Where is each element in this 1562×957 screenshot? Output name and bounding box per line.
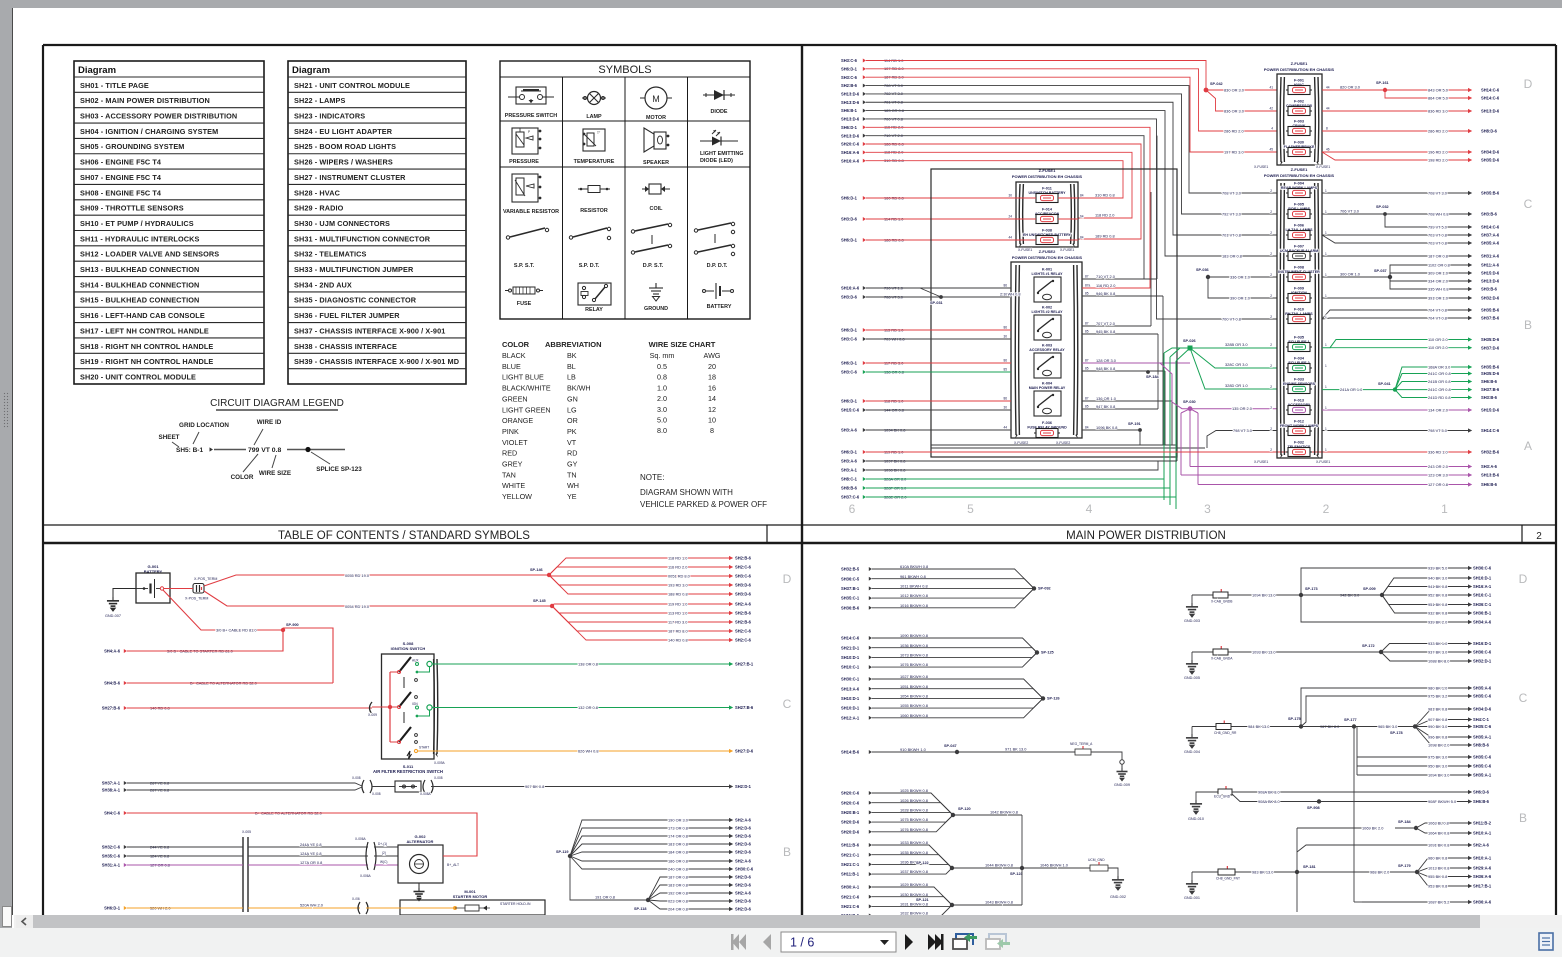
svg-text:SP-145: SP-145 bbox=[533, 599, 546, 603]
svg-text:933 BK 1.0: 933 BK 1.0 bbox=[1428, 641, 1448, 646]
svg-text:SH11:B-1: SH11:B-1 bbox=[841, 872, 860, 877]
svg-text:SH14:C-6: SH14:C-6 bbox=[1481, 96, 1500, 101]
svg-text:939 BK 5.0: 939 BK 5.0 bbox=[1428, 565, 1448, 570]
svg-text:128 OR 3.0: 128 OR 3.0 bbox=[1096, 358, 1117, 363]
svg-text:8: 8 bbox=[710, 426, 714, 435]
svg-text:SH37:C-6: SH37:C-6 bbox=[841, 495, 860, 500]
svg-text:SH2:D-6: SH2:D-6 bbox=[735, 834, 752, 839]
svg-text:SH37:B-6: SH37:B-6 bbox=[1481, 387, 1500, 392]
svg-text:SH20:B-1: SH20:B-1 bbox=[841, 810, 860, 815]
svg-text:SH6:D-6: SH6:D-6 bbox=[1473, 790, 1490, 795]
svg-text:2: 2 bbox=[1270, 252, 1272, 256]
svg-text:SH32:D-6: SH32:D-6 bbox=[1481, 296, 1500, 301]
svg-text:1030 BKWH 0.8: 1030 BKWH 0.8 bbox=[900, 892, 928, 897]
svg-text:SP-161: SP-161 bbox=[1376, 81, 1389, 85]
svg-text:84: 84 bbox=[1085, 426, 1089, 430]
svg-text:86: 86 bbox=[1003, 284, 1007, 288]
svg-text:IGNITION SWITCH: IGNITION SWITCH bbox=[391, 646, 426, 651]
svg-text:BLACK: BLACK bbox=[502, 351, 526, 360]
svg-text:118 RD 2.0: 118 RD 2.0 bbox=[1095, 213, 1115, 218]
svg-text:701 VT 0.8: 701 VT 0.8 bbox=[1222, 232, 1241, 237]
svg-text:MAIN POWER RELAY: MAIN POWER RELAY bbox=[1029, 386, 1066, 390]
svg-text:X-FUSE1: X-FUSE1 bbox=[1254, 460, 1268, 464]
svg-text:24: 24 bbox=[1008, 215, 1012, 219]
svg-text:SH12 - LOADER VALVE AND SENSOR: SH12 - LOADER VALVE AND SENSORS bbox=[80, 250, 219, 259]
svg-text:1102 OR 0.8: 1102 OR 0.8 bbox=[1428, 262, 1450, 267]
svg-text:SH3:C-6: SH3:C-6 bbox=[735, 574, 752, 579]
svg-text:B: B bbox=[1519, 811, 1527, 825]
svg-text:SH27:D-6: SH27:D-6 bbox=[735, 749, 754, 754]
svg-text:1: 1 bbox=[1325, 406, 1327, 410]
svg-text:798 VT 5.0: 798 VT 5.0 bbox=[1428, 428, 1448, 433]
svg-text:SH31 - MULTIFUNCTION CONNECTOR: SH31 - MULTIFUNCTION CONNECTOR bbox=[294, 234, 431, 243]
svg-text:SP-031: SP-031 bbox=[930, 301, 943, 305]
svg-text:ABBREVIATION: ABBREVIATION bbox=[545, 340, 602, 349]
svg-text:SH15 - BULKHEAD CONNECTION: SH15 - BULKHEAD CONNECTION bbox=[80, 296, 199, 305]
svg-text:SH11 - HYDRAULIC INTERLOCKS: SH11 - HYDRAULIC INTERLOCKS bbox=[80, 234, 199, 243]
svg-text:87: 87 bbox=[1085, 322, 1089, 326]
svg-text:116 RD 2.0: 116 RD 2.0 bbox=[668, 564, 688, 569]
svg-text:192 OR 0.8: 192 OR 0.8 bbox=[668, 890, 688, 895]
svg-text:GREEN: GREEN bbox=[502, 394, 528, 403]
svg-text:SH10:D-1: SH10:D-1 bbox=[841, 655, 860, 660]
svg-text:1035 BKWH 0.8: 1035 BKWH 0.8 bbox=[900, 850, 928, 855]
svg-text:GND-001: GND-001 bbox=[1184, 896, 1200, 900]
svg-text:SH16:A-6: SH16:A-6 bbox=[841, 286, 860, 291]
svg-text:6: 6 bbox=[849, 502, 856, 516]
svg-text:SH21:C-1: SH21:C-1 bbox=[841, 852, 860, 857]
svg-text:D: D bbox=[1524, 77, 1533, 91]
svg-text:110 OR 2.0: 110 OR 2.0 bbox=[1428, 337, 1448, 342]
svg-text:SH3:B-6: SH3:B-6 bbox=[1481, 212, 1498, 217]
svg-text:B: B bbox=[1524, 318, 1532, 332]
svg-text:SH32:D-1: SH32:D-1 bbox=[1473, 659, 1492, 664]
svg-text:SH20:C-6: SH20:C-6 bbox=[841, 800, 860, 805]
svg-text:87: 87 bbox=[1085, 397, 1089, 401]
svg-text:SH2:D-6: SH2:D-6 bbox=[735, 907, 752, 912]
svg-text:WH: WH bbox=[567, 481, 579, 490]
svg-text:SH35:C-6: SH35:C-6 bbox=[1473, 755, 1492, 760]
svg-text:1033 BKWH 0.8: 1033 BKWH 0.8 bbox=[900, 840, 928, 845]
svg-text:SH6:B-6: SH6:B-6 bbox=[1473, 799, 1490, 804]
svg-text:836 RD 3.0: 836 RD 3.0 bbox=[1428, 108, 1449, 113]
svg-text:947 BK 0.8: 947 BK 0.8 bbox=[1096, 404, 1115, 409]
svg-text:243 OR 2.0: 243 OR 2.0 bbox=[1428, 464, 1449, 469]
svg-text:SP-041: SP-041 bbox=[1378, 382, 1391, 386]
svg-text:955 BK 0.8: 955 BK 0.8 bbox=[1428, 874, 1447, 879]
svg-text:SH6:D-1: SH6:D-1 bbox=[841, 450, 858, 455]
svg-text:1088 BK 8.0: 1088 BK 8.0 bbox=[1428, 658, 1450, 663]
svg-text:TABLE OF CONTENTS / STANDARD S: TABLE OF CONTENTS / STANDARD SYMBOLS bbox=[278, 530, 530, 542]
svg-text:C: C bbox=[1524, 197, 1533, 211]
svg-text:SH2:D-6: SH2:D-6 bbox=[735, 883, 752, 888]
svg-text:SP-037: SP-037 bbox=[1374, 269, 1387, 273]
svg-text:X-005: X-005 bbox=[242, 830, 251, 834]
svg-text:1064 BK 0.8: 1064 BK 0.8 bbox=[1428, 830, 1449, 835]
svg-text:SH14:B-6: SH14:B-6 bbox=[841, 750, 860, 755]
svg-text:134 OR 2.0: 134 OR 2.0 bbox=[1428, 407, 1449, 412]
svg-text:RED: RED bbox=[502, 449, 517, 458]
svg-text:SH35:A-6: SH35:A-6 bbox=[1481, 241, 1500, 246]
svg-text:1: 1 bbox=[1325, 294, 1327, 298]
svg-text:984 BK 13.0: 984 BK 13.0 bbox=[1248, 724, 1270, 729]
svg-text:SP-125: SP-125 bbox=[1041, 651, 1054, 655]
svg-text:87: 87 bbox=[1085, 275, 1089, 279]
svg-text:975 BK 3.0: 975 BK 3.0 bbox=[1428, 754, 1448, 759]
svg-text:Diagram: Diagram bbox=[292, 65, 330, 76]
svg-text:BLACK/WHITE: BLACK/WHITE bbox=[502, 384, 551, 393]
svg-text:ORANGE: ORANGE bbox=[502, 416, 533, 425]
svg-text:1: 1 bbox=[1325, 343, 1327, 347]
svg-text:X-/06: X-/06 bbox=[352, 897, 360, 901]
svg-text:44: 44 bbox=[1003, 426, 1007, 430]
svg-text:703 VT 0.8: 703 VT 0.8 bbox=[1428, 240, 1447, 245]
svg-text:VEHICLE PARKED & POWER OFF: VEHICLE PARKED & POWER OFF bbox=[640, 500, 767, 509]
svg-text:SH35:B-6: SH35:B-6 bbox=[1481, 365, 1500, 370]
svg-text:908F BKWH 5.0: 908F BKWH 5.0 bbox=[1428, 799, 1457, 804]
svg-text:1069 BK 2.0: 1069 BK 2.0 bbox=[1362, 825, 1384, 830]
svg-text:708 VT 3.0: 708 VT 3.0 bbox=[1428, 190, 1448, 195]
svg-text:SH36:B-1: SH36:B-1 bbox=[1473, 611, 1492, 616]
svg-text:1: 1 bbox=[1441, 502, 1448, 516]
svg-text:971 BK 13.0: 971 BK 13.0 bbox=[1005, 747, 1027, 752]
svg-text:NOTE:: NOTE: bbox=[640, 473, 664, 482]
svg-text:X-FUSE1: X-FUSE1 bbox=[1060, 248, 1074, 252]
svg-text:5.0: 5.0 bbox=[657, 416, 667, 425]
svg-text:SH21:C-6: SH21:C-6 bbox=[841, 894, 860, 899]
svg-text:SH33 - MULTIFUNCTION JUMPER: SH33 - MULTIFUNCTION JUMPER bbox=[294, 265, 414, 274]
svg-text:Z-FUSE2: Z-FUSE2 bbox=[1039, 249, 1056, 254]
svg-text:2: 2 bbox=[1270, 231, 1272, 235]
svg-text:SH16:A-6: SH16:A-6 bbox=[841, 158, 860, 163]
svg-text:SH4:C-1: SH4:C-1 bbox=[1473, 717, 1490, 722]
svg-text:BLUE: BLUE bbox=[502, 362, 521, 371]
svg-text:241A OR 1.0: 241A OR 1.0 bbox=[1340, 387, 1363, 392]
svg-text:LIGHT GREEN: LIGHT GREEN bbox=[502, 405, 551, 414]
svg-text:SH4:C-6: SH4:C-6 bbox=[104, 811, 121, 816]
svg-text:941 BK 0.8: 941 BK 0.8 bbox=[1428, 584, 1447, 589]
svg-text:SH34:A-6: SH34:A-6 bbox=[1473, 620, 1492, 625]
svg-text:BATTERY: BATTERY bbox=[707, 304, 732, 310]
svg-text:Z-FUSE1: Z-FUSE1 bbox=[1291, 61, 1308, 66]
svg-text:SH8:B-6: SH8:B-6 bbox=[1473, 743, 1490, 748]
svg-text:1087 BK 5.2: 1087 BK 5.2 bbox=[1428, 899, 1449, 904]
svg-text:SH11:B-6: SH11:B-6 bbox=[841, 843, 860, 848]
svg-text:SH22 - LAMPS: SH22 - LAMPS bbox=[294, 96, 346, 105]
svg-text:SH09 - THROTTLE SENSORS: SH09 - THROTTLE SENSORS bbox=[80, 204, 184, 213]
svg-text:1076 BKWH 0.8: 1076 BKWH 0.8 bbox=[900, 662, 928, 667]
svg-text:POWER DISTRIBUTION EH CHASSIS: POWER DISTRIBUTION EH CHASSIS bbox=[1012, 255, 1083, 260]
svg-text:SH6:B-1: SH6:B-1 bbox=[841, 108, 858, 113]
svg-text:SH14:C-6: SH14:C-6 bbox=[1481, 225, 1500, 230]
svg-text:SH08 - ENGINE F5C T4: SH08 - ENGINE F5C T4 bbox=[80, 188, 162, 197]
svg-text:193 RD 3.0: 193 RD 3.0 bbox=[668, 582, 689, 587]
svg-text:STARTER MOTOR: STARTER MOTOR bbox=[453, 894, 488, 899]
svg-text:SH29:A-6: SH29:A-6 bbox=[1473, 866, 1492, 871]
svg-text:1028 BKWH 0.8: 1028 BKWH 0.8 bbox=[900, 808, 928, 813]
svg-text:SH32 - TELEMATICS: SH32 - TELEMATICS bbox=[294, 250, 367, 259]
svg-text:138 OR 0.8: 138 OR 0.8 bbox=[578, 661, 598, 666]
svg-text:SP-178: SP-178 bbox=[1390, 731, 1403, 735]
svg-text:1042 BKWH 0.8: 1042 BKWH 0.8 bbox=[990, 810, 1018, 815]
svg-text:SH4:A-6: SH4:A-6 bbox=[104, 649, 121, 654]
svg-text:2: 2 bbox=[1270, 343, 1272, 347]
svg-text:SP-030: SP-030 bbox=[1183, 400, 1196, 404]
svg-text:BK: BK bbox=[567, 351, 577, 360]
svg-text:SH20:D-6: SH20:D-6 bbox=[841, 829, 860, 834]
svg-text:BK/WH: BK/WH bbox=[567, 384, 591, 393]
svg-text:16: 16 bbox=[708, 383, 716, 392]
svg-text:ECU_GND: ECU_GND bbox=[1214, 795, 1231, 799]
svg-text:SH20:D-6: SH20:D-6 bbox=[841, 820, 860, 825]
svg-text:SH31:A-1: SH31:A-1 bbox=[102, 863, 121, 868]
svg-text:SH37:B-1: SH37:B-1 bbox=[841, 586, 860, 591]
svg-text:SH04 - IGNITION / CHARGING SY: SH04 - IGNITION / CHARGING SYSTEM bbox=[80, 127, 218, 136]
svg-text:300 OR 1.0: 300 OR 1.0 bbox=[1340, 272, 1361, 277]
svg-text:SH2:A-6: SH2:A-6 bbox=[735, 818, 752, 823]
svg-text:SH32:B-5: SH32:B-5 bbox=[841, 567, 860, 572]
svg-text:181 OR 0.8: 181 OR 0.8 bbox=[668, 841, 688, 846]
svg-text:1: 1 bbox=[1325, 364, 1327, 368]
svg-text:183 OR 0.8: 183 OR 0.8 bbox=[1222, 253, 1242, 258]
svg-text:1063 BL 0.8: 1063 BL 0.8 bbox=[1428, 820, 1449, 825]
svg-text:M: M bbox=[652, 94, 660, 104]
svg-text:SH2:B-6: SH2:B-6 bbox=[735, 620, 752, 625]
svg-text:113 RD 1.0: 113 RD 1.0 bbox=[668, 610, 688, 615]
svg-text:2: 2 bbox=[1270, 210, 1272, 214]
svg-text:SH6:D-1: SH6:D-1 bbox=[841, 125, 858, 130]
svg-text:SH3:D-6: SH3:D-6 bbox=[735, 583, 752, 588]
svg-text:X-FUSE2: X-FUSE2 bbox=[1056, 441, 1070, 445]
svg-text:SH2:A-6: SH2:A-6 bbox=[1473, 843, 1490, 848]
svg-text:SH6:D-1: SH6:D-1 bbox=[841, 238, 858, 243]
svg-text:241D RD 0.8: 241D RD 0.8 bbox=[1428, 395, 1451, 400]
svg-text:SH29 - RADIO: SH29 - RADIO bbox=[294, 204, 344, 213]
svg-text:335 WH 0.8: 335 WH 0.8 bbox=[1428, 286, 1449, 291]
svg-text:SH2:D-6: SH2:D-6 bbox=[735, 850, 752, 855]
svg-text:1012 BKWH 0.8: 1012 BKWH 0.8 bbox=[900, 593, 928, 598]
svg-text:S.P. S.T.: S.P. S.T. bbox=[514, 263, 535, 269]
svg-text:188 RD 0.8: 188 RD 0.8 bbox=[668, 591, 688, 596]
svg-text:960 BK 0.8: 960 BK 0.8 bbox=[1428, 855, 1447, 860]
svg-text:X-006A: X-006A bbox=[355, 837, 367, 841]
svg-text:2: 2 bbox=[1270, 364, 1272, 368]
svg-text:703 VT 0.8: 703 VT 0.8 bbox=[1428, 232, 1447, 237]
svg-text:SH8:D-6: SH8:D-6 bbox=[1481, 129, 1498, 134]
svg-text:86: 86 bbox=[1003, 397, 1007, 401]
svg-text:SH27 - INSTRUMENT CLUSTER: SH27 - INSTRUMENT CLUSTER bbox=[294, 173, 406, 182]
svg-text:1043 BKWH 0.8: 1043 BKWH 0.8 bbox=[985, 900, 1013, 905]
svg-text:PINK: PINK bbox=[502, 427, 519, 436]
svg-text:SH3:C-6: SH3:C-6 bbox=[841, 58, 858, 63]
svg-text:IGN: IGN bbox=[412, 702, 418, 706]
svg-text:ACCESSORY RELAY: ACCESSORY RELAY bbox=[1029, 348, 1065, 352]
svg-text:SH10 - ET PUMP / HYDRAULICS: SH10 - ET PUMP / HYDRAULICS bbox=[80, 219, 194, 228]
svg-text:MAIN POWER DISTRIBUTION: MAIN POWER DISTRIBUTION bbox=[1066, 530, 1226, 542]
svg-text:836 OR 3.0: 836 OR 3.0 bbox=[1224, 108, 1245, 113]
svg-text:SP-126: SP-126 bbox=[1047, 696, 1060, 700]
svg-text:20: 20 bbox=[708, 362, 716, 371]
svg-text:SH3:C-6: SH3:C-6 bbox=[841, 337, 858, 342]
svg-text:SP-118: SP-118 bbox=[634, 907, 646, 911]
svg-text:945 BK 0.8: 945 BK 0.8 bbox=[1096, 329, 1115, 334]
svg-text:GND-002: GND-002 bbox=[1110, 895, 1126, 899]
svg-text:D: D bbox=[1519, 572, 1528, 586]
svg-text:328D OR 1.0: 328D OR 1.0 bbox=[1225, 383, 1249, 388]
svg-text:830 OR 3.0: 830 OR 3.0 bbox=[1224, 87, 1245, 92]
svg-text:X-008: X-008 bbox=[352, 776, 361, 780]
svg-text:SPEAKER: SPEAKER bbox=[643, 160, 669, 166]
svg-text:SH38:A-1: SH38:A-1 bbox=[102, 788, 121, 793]
svg-text:SH14:C-6: SH14:C-6 bbox=[1481, 428, 1500, 433]
svg-text:87: 87 bbox=[1085, 359, 1089, 363]
svg-text:SH35:C-6: SH35:C-6 bbox=[1473, 694, 1492, 699]
svg-text:SH20 - UNIT CONTROL MODULE: SH20 - UNIT CONTROL MODULE bbox=[80, 372, 196, 381]
svg-text:P: P bbox=[528, 130, 530, 134]
svg-text:SH35:C-6: SH35:C-6 bbox=[102, 854, 121, 859]
svg-text:187 OR 0.8: 187 OR 0.8 bbox=[1428, 253, 1448, 258]
svg-text:SH2:D-6: SH2:D-6 bbox=[735, 875, 752, 880]
svg-text:LIGHTS #1 RELAY: LIGHTS #1 RELAY bbox=[1031, 272, 1063, 276]
svg-text:961 BKWH 0.8: 961 BKWH 0.8 bbox=[900, 574, 926, 579]
svg-text:SP-047: SP-047 bbox=[944, 744, 957, 748]
svg-text:SH2:A-6: SH2:A-6 bbox=[735, 859, 752, 864]
svg-text:GND-005: GND-005 bbox=[1184, 676, 1200, 680]
svg-text:GND-004: GND-004 bbox=[1184, 750, 1200, 754]
svg-text:189 RD 0.8: 189 RD 0.8 bbox=[1095, 234, 1115, 239]
svg-text:SP-179: SP-179 bbox=[1398, 864, 1411, 868]
svg-text:241C OR 0.8: 241C OR 0.8 bbox=[1428, 371, 1451, 376]
svg-text:948 BK 0.8: 948 BK 0.8 bbox=[1096, 366, 1115, 371]
svg-text:864 OR 5.0: 864 OR 5.0 bbox=[1428, 95, 1449, 100]
svg-text:PRESSURE SWITCH: PRESSURE SWITCH bbox=[505, 113, 558, 119]
svg-text:S.P. D.T.: S.P. D.T. bbox=[579, 263, 600, 269]
svg-text:1: 1 bbox=[1325, 385, 1327, 389]
svg-text:SH27:B-1: SH27:B-1 bbox=[735, 662, 754, 667]
svg-text:30: 30 bbox=[1008, 194, 1012, 198]
svg-text:3: 3 bbox=[1204, 502, 1211, 516]
svg-text:1055 BKWH 0.8: 1055 BKWH 0.8 bbox=[900, 703, 928, 708]
svg-text:SYMBOLS: SYMBOLS bbox=[598, 64, 651, 76]
svg-text:CH8_GND_FNT: CH8_GND_FNT bbox=[1216, 877, 1240, 881]
svg-text:309 OR 1.0: 309 OR 1.0 bbox=[1428, 270, 1449, 275]
svg-text:241B OR 0.8: 241B OR 0.8 bbox=[1428, 379, 1451, 384]
svg-text:SH35:C-6: SH35:C-6 bbox=[1473, 724, 1492, 729]
svg-text:SH13:D-6: SH13:D-6 bbox=[1481, 279, 1500, 284]
svg-text:SH36:C-6: SH36:C-6 bbox=[1473, 566, 1492, 571]
svg-text:GND-007: GND-007 bbox=[105, 614, 121, 618]
svg-text:SH37:B-6: SH37:B-6 bbox=[1481, 316, 1500, 321]
svg-text:2: 2 bbox=[1270, 406, 1272, 410]
svg-text:SH35:D-6: SH35:D-6 bbox=[1481, 371, 1500, 376]
svg-text:SH6:D-1: SH6:D-1 bbox=[104, 906, 121, 911]
svg-text:SH24 - EU LIGHT ADAPTER: SH24 - EU LIGHT ADAPTER bbox=[294, 127, 393, 136]
svg-text:SH36:C-5: SH36:C-5 bbox=[841, 576, 860, 581]
svg-text:SP-900: SP-900 bbox=[286, 623, 299, 627]
svg-text:SH15:D-6: SH15:D-6 bbox=[1481, 271, 1500, 276]
svg-text:SH2:D-6: SH2:D-6 bbox=[735, 826, 752, 831]
svg-text:46: 46 bbox=[1326, 148, 1330, 152]
svg-text:SH07 - ENGINE F5C T4: SH07 - ENGINE F5C T4 bbox=[80, 173, 162, 182]
svg-text:SH21:C-1: SH21:C-1 bbox=[841, 862, 860, 867]
svg-text:626 WH 0.8: 626 WH 0.8 bbox=[578, 748, 599, 753]
svg-text:BL: BL bbox=[567, 362, 576, 371]
svg-text:968 BK 2.0: 968 BK 2.0 bbox=[1370, 869, 1390, 874]
svg-text:SH6:D-1: SH6:D-1 bbox=[841, 328, 858, 333]
svg-text:1073 BKWH 0.8: 1073 BKWH 0.8 bbox=[900, 653, 928, 658]
svg-text:708 WH 0.8: 708 WH 0.8 bbox=[1428, 211, 1449, 216]
svg-text:SH2:D-1: SH2:D-1 bbox=[735, 784, 752, 789]
svg-text:907 BK 0.8: 907 BK 0.8 bbox=[1428, 717, 1447, 722]
svg-text:116 RD 2.0: 116 RD 2.0 bbox=[1096, 283, 1116, 288]
svg-text:YE: YE bbox=[567, 492, 577, 501]
svg-text:1094 BK 13.0: 1094 BK 13.0 bbox=[1252, 592, 1276, 597]
svg-text:RELAY: RELAY bbox=[585, 307, 603, 313]
svg-text:SH12:A-1: SH12:A-1 bbox=[841, 715, 860, 720]
svg-text:GND-009: GND-009 bbox=[1114, 783, 1130, 787]
svg-text:820 OR 3.0: 820 OR 3.0 bbox=[1340, 85, 1361, 90]
svg-text:GN: GN bbox=[567, 394, 578, 403]
svg-text:191 OR 0.8: 191 OR 0.8 bbox=[595, 895, 615, 900]
svg-text:SH37:A-1: SH37:A-1 bbox=[102, 781, 121, 786]
svg-text:YELLOW: YELLOW bbox=[502, 492, 532, 501]
svg-text:AIR FILTER RESTRICTION SWITCH: AIR FILTER RESTRICTION SWITCH bbox=[373, 769, 443, 774]
svg-text:SH13:A-6: SH13:A-6 bbox=[841, 686, 860, 691]
svg-text:SH4:B-6: SH4:B-6 bbox=[104, 681, 121, 686]
svg-text:0.8: 0.8 bbox=[657, 373, 667, 382]
svg-text:286 RD 2.0: 286 RD 2.0 bbox=[1224, 128, 1245, 133]
svg-text:328C OR 3.0: 328C OR 3.0 bbox=[1225, 362, 1249, 367]
svg-text:A: A bbox=[1524, 439, 1532, 453]
svg-text:START: START bbox=[419, 746, 429, 750]
svg-text:NEG_TERM_A: NEG_TERM_A bbox=[1070, 742, 1093, 746]
svg-text:FUSE: FUSE bbox=[517, 301, 532, 307]
svg-text:310 RD 0.8: 310 RD 0.8 bbox=[1095, 193, 1115, 198]
svg-text:950 BK 3.0: 950 BK 3.0 bbox=[1428, 763, 1448, 768]
svg-text:3.0: 3.0 bbox=[657, 405, 667, 414]
svg-text:VT: VT bbox=[567, 438, 577, 447]
svg-text:1: 1 bbox=[1325, 231, 1327, 235]
svg-text:SH35:A-6: SH35:A-6 bbox=[1473, 686, 1492, 691]
svg-text:946 BK 0.8: 946 BK 0.8 bbox=[1096, 291, 1115, 296]
svg-text:SH14:C-6: SH14:C-6 bbox=[841, 636, 860, 641]
svg-text:SH2:B-6: SH2:B-6 bbox=[735, 556, 752, 561]
svg-text:WIRE SIZE CHART: WIRE SIZE CHART bbox=[649, 340, 716, 349]
svg-text:D+-(1): D+-(1) bbox=[378, 842, 387, 846]
svg-text:SH6:D-1: SH6:D-1 bbox=[841, 399, 858, 404]
svg-text:SH16:A-1: SH16:A-1 bbox=[1473, 584, 1492, 589]
svg-text:30: 30 bbox=[1003, 406, 1007, 410]
svg-text:908A BK 8.0: 908A BK 8.0 bbox=[1258, 789, 1280, 794]
svg-text:132 OR 0.8: 132 OR 0.8 bbox=[578, 705, 598, 710]
svg-text:GY: GY bbox=[567, 460, 578, 469]
svg-text:GND-010: GND-010 bbox=[1188, 817, 1204, 821]
svg-text:SH17:B-1: SH17:B-1 bbox=[1473, 884, 1492, 889]
svg-text:1: 1 bbox=[1325, 252, 1327, 256]
svg-text:SH2:D-6: SH2:D-6 bbox=[735, 899, 752, 904]
svg-text:965 BK 3.0: 965 BK 3.0 bbox=[1378, 724, 1398, 729]
svg-text:SH30:A-1: SH30:A-1 bbox=[841, 885, 860, 890]
svg-text:SH15:C-6: SH15:C-6 bbox=[841, 408, 860, 413]
svg-text:85: 85 bbox=[1085, 330, 1089, 334]
svg-text:1098 BK 2.0: 1098 BK 2.0 bbox=[1428, 742, 1450, 747]
svg-text:2: 2 bbox=[1270, 385, 1272, 389]
svg-text:SH31:A-6: SH31:A-6 bbox=[1481, 254, 1500, 259]
svg-text:704 VT 0.8: 704 VT 0.8 bbox=[1428, 315, 1447, 320]
svg-text:SH38 - CHASSIS INTERFACE: SH38 - CHASSIS INTERFACE bbox=[294, 342, 397, 351]
svg-text:704 VT 0.8: 704 VT 0.8 bbox=[1428, 307, 1447, 312]
svg-text:SH36:C-6: SH36:C-6 bbox=[1473, 650, 1492, 655]
